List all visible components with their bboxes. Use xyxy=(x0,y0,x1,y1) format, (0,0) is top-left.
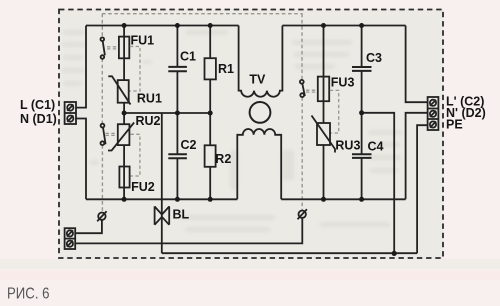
svg-text:FU3: FU3 xyxy=(331,76,355,90)
wire: C1-C2 column xyxy=(176,26,178,200)
wire: L riser from input terminal xyxy=(76,26,86,108)
svg-text:TV: TV xyxy=(249,73,266,87)
wire: C3-C4 midpoint to PE bus xyxy=(362,113,395,254)
switch S3 xyxy=(300,80,305,97)
wire: PE bus bottom xyxy=(162,252,417,254)
svg-text:C4: C4 xyxy=(368,140,384,154)
fuse FU3 xyxy=(318,77,329,102)
wire: N riser from input terminal xyxy=(76,119,86,200)
capacitor C4 xyxy=(352,154,372,158)
svg-text:RU3: RU3 xyxy=(335,139,360,153)
fuse FU2 xyxy=(119,167,129,188)
svg-text:C2: C2 xyxy=(181,138,197,152)
chassis dashed line left xyxy=(101,14,103,213)
switch S2 xyxy=(101,124,106,145)
figure gray background xyxy=(59,9,443,259)
chassis dashed line top xyxy=(102,13,303,15)
wire: top rail L xyxy=(86,25,406,27)
chassis earth point left xyxy=(97,211,106,221)
wire: PE riser to output terminal xyxy=(417,125,428,253)
svg-text:RU2: RU2 xyxy=(136,114,161,128)
pink band xyxy=(0,271,500,280)
mechanical link S2-RU2 xyxy=(106,133,118,135)
svg-text:FU1: FU1 xyxy=(131,34,155,48)
arrester BL xyxy=(155,206,170,225)
wire: FU1-RU1-RU2-FU2 column xyxy=(123,26,125,200)
capacitor C2 xyxy=(168,154,187,158)
svg-text:C1: C1 xyxy=(180,50,196,64)
varistor RU3 xyxy=(312,116,336,153)
outer dashed border xyxy=(59,10,443,259)
thermal link FU3-RU3 xyxy=(330,90,339,133)
mechanical link S1-FU1 xyxy=(107,47,118,49)
thermal link RU2-FU2 xyxy=(130,134,140,176)
svg-text:RU1: RU1 xyxy=(137,92,162,106)
svg-text:C3: C3 xyxy=(366,51,382,65)
varistor RU1 xyxy=(108,76,130,104)
wire: left chassis point to terminal xyxy=(75,220,102,233)
wire: R1-R2 column xyxy=(209,26,211,200)
svg-text:РИС. 6: РИС. 6 xyxy=(7,286,50,303)
input PE terminal block xyxy=(65,228,76,249)
wire: midpoint line left xyxy=(124,112,210,114)
svg-text:R2: R2 xyxy=(215,152,231,166)
switch S1 xyxy=(101,37,105,58)
wire: FU3-RU3 column xyxy=(323,26,325,200)
svg-text:R1: R1 xyxy=(218,62,234,76)
capacitor C1 xyxy=(168,67,187,71)
transformer TV core circle xyxy=(250,102,271,123)
fuse FU1 xyxy=(119,37,129,59)
strip below figure xyxy=(0,259,500,269)
chassis earth point right xyxy=(298,209,307,219)
output terminal block L'/N'/PE xyxy=(428,97,439,130)
thermal link FU1-RU1 xyxy=(129,47,140,92)
wire: BL drop from midpoint to PE bus xyxy=(161,113,163,253)
input terminal block L/N xyxy=(65,102,76,124)
chassis dashed line right xyxy=(301,14,303,211)
transformer TV secondary winding xyxy=(237,129,281,199)
capacitor C3 xyxy=(352,67,372,71)
resistor R1 xyxy=(205,58,216,79)
wire: bottom rail N xyxy=(86,198,406,200)
svg-text:N (D1): N (D1) xyxy=(20,112,57,126)
svg-text:FU2: FU2 xyxy=(131,180,155,194)
wire: L' riser and stub xyxy=(406,26,428,103)
svg-text:BL: BL xyxy=(173,208,190,222)
svg-text:PE: PE xyxy=(446,117,463,131)
varistor RU2 xyxy=(108,123,134,151)
wire: N' riser and stub xyxy=(406,113,428,200)
mechanical link S3-FU3 xyxy=(306,90,317,92)
resistor R2 xyxy=(205,145,216,167)
faint page show-through texture xyxy=(62,30,402,232)
wire: input PE to right chassis point xyxy=(75,218,302,243)
wire: C3-C4 column xyxy=(361,26,363,200)
svg-text:L (C1): L (C1) xyxy=(20,98,55,112)
transformer TV primary winding xyxy=(239,26,283,97)
